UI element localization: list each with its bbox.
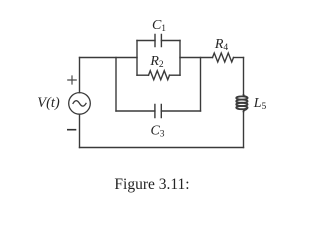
wire C1 top branch right — [161, 40, 180, 42]
svg-text:R2: R2 — [149, 54, 164, 70]
wire C1 top branch left — [137, 40, 155, 42]
wire bottom horizontal — [80, 147, 244, 149]
resistor R2 zigzag — [149, 71, 170, 80]
inductor L5 coil — [236, 95, 247, 111]
wire left vertical (source top lead) — [79, 58, 81, 93]
wire parallel-box right edge — [179, 41, 181, 76]
svg-text:C1: C1 — [152, 18, 166, 34]
svg-text:Figure 3.11:: Figure 3.11: — [114, 176, 189, 193]
wire right vertical bottom lead — [243, 111, 245, 147]
svg-text:C3: C3 — [150, 124, 164, 140]
resistor R4 zigzag — [213, 53, 234, 62]
wire R2 branch left — [137, 74, 149, 76]
node junction C3 branch top — [115, 58, 117, 112]
label plus sign — [67, 75, 77, 84]
wire main right segment — [180, 57, 213, 59]
svg-text:R4: R4 — [214, 37, 229, 53]
wire after R4 to corner — [234, 57, 244, 59]
capacitor C3 plates — [155, 105, 161, 118]
source V(t) circle — [69, 93, 91, 115]
wire C3 branch left horizontal — [116, 110, 155, 112]
wire C3 branch right horizontal — [161, 110, 200, 112]
wire R2 branch right — [170, 74, 181, 76]
svg-text:L5: L5 — [253, 96, 267, 112]
wire C3 branch right vertical — [200, 58, 202, 112]
wire left vertical (source bottom lead) — [79, 114, 81, 147]
label minus sign — [67, 129, 76, 131]
wire parallel-box left edge — [136, 41, 138, 76]
wire right vertical top lead — [243, 58, 245, 95]
wire top-left horizontal — [80, 57, 138, 59]
source sine symbol — [73, 101, 86, 106]
svg-text:V(t): V(t) — [37, 95, 60, 111]
capacitor C1 plates — [155, 35, 161, 47]
